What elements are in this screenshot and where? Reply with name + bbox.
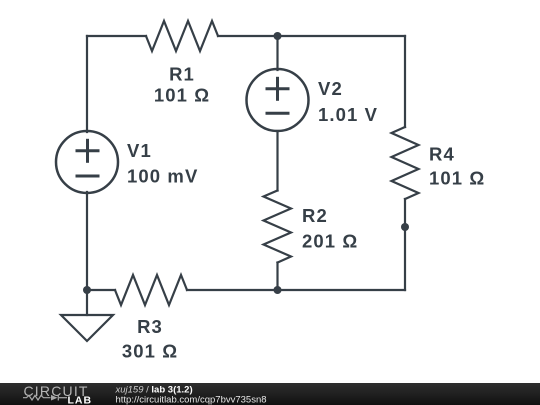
svg-text:V1: V1 — [127, 140, 152, 161]
label R3 — [122, 316, 178, 362]
svg-text:R3: R3 — [137, 316, 163, 337]
wire top rail right — [218, 35, 405, 37]
wire right vertical lower — [404, 199, 406, 290]
voltage source V1 — [56, 131, 118, 193]
svg-text:201 Ω: 201 Ω — [302, 231, 358, 252]
wire bottom rail left — [87, 289, 115, 291]
svg-text:R2: R2 — [302, 205, 328, 226]
ground — [61, 290, 113, 341]
label V2 — [318, 78, 378, 125]
svg-text:101 Ω: 101 Ω — [429, 168, 485, 189]
svg-text:1.01 V: 1.01 V — [318, 104, 378, 125]
svg-text:http://circuitlab.com/cqp7bvv7: http://circuitlab.com/cqp7bvv735sn8 — [116, 394, 267, 405]
label R4 — [429, 144, 485, 189]
svg-text:301 Ω: 301 Ω — [122, 341, 178, 362]
node junction top — [274, 32, 282, 40]
label R2 — [302, 205, 358, 252]
svg-text:LAB: LAB — [68, 395, 93, 405]
wire bottom rail right — [187, 289, 405, 291]
wire R2 bottom stub — [276, 263, 278, 291]
resistor R3 — [115, 275, 187, 305]
svg-text:V2: V2 — [318, 78, 343, 99]
footer bar — [0, 383, 540, 405]
svg-text:101 Ω: 101 Ω — [154, 85, 210, 106]
wire V2 top stub — [276, 36, 278, 70]
CircuitLab logo squiggle — [23, 395, 67, 401]
resistor R2 — [264, 191, 292, 263]
wire right vertical upper — [404, 36, 406, 127]
resistor R4 — [392, 127, 419, 199]
wire V1 bottom — [86, 192, 88, 290]
svg-text:R1: R1 — [169, 64, 195, 85]
label R1 — [154, 64, 210, 106]
voltage source V2 — [247, 69, 309, 131]
node junction bottom-mid — [274, 286, 282, 294]
wire top-left vertical — [86, 36, 88, 132]
svg-text:100 mV: 100 mV — [127, 166, 198, 187]
label V1 — [127, 140, 198, 187]
resistor R1 — [146, 21, 218, 51]
wire V2 bottom to R2 — [276, 131, 278, 191]
wire top rail left — [87, 35, 146, 37]
node junction right — [401, 223, 409, 231]
node junction bottom-left — [83, 286, 91, 294]
svg-text:R4: R4 — [429, 144, 455, 165]
